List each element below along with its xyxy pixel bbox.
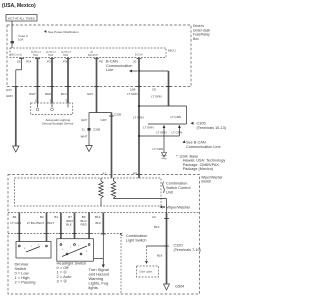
svg-text:(USA, Mexico): (USA, Mexico) xyxy=(2,3,36,9)
svg-text:20: 20 xyxy=(133,60,137,64)
svg-text:Package (Mexico): Package (Mexico) xyxy=(183,167,214,171)
svg-text:BLK: BLK xyxy=(157,254,163,258)
svg-text:B13: B13 xyxy=(95,215,101,219)
svg-text:LT GRN: LT GRN xyxy=(171,115,182,119)
svg-text:(Terminals 7-10): (Terminals 7-10) xyxy=(174,248,202,252)
svg-text:2 = Passing: 2 = Passing xyxy=(15,280,36,285)
svg-text:See B-CAN: See B-CAN xyxy=(186,140,206,144)
svg-text:A3: A3 xyxy=(152,215,156,219)
svg-text:SW1: SW1 xyxy=(33,54,39,57)
svg-text:RED: RED xyxy=(81,223,88,227)
svg-text:Communication Line: Communication Line xyxy=(186,145,221,149)
svg-text:GRY: GRY xyxy=(81,118,87,122)
svg-text:Switch Control: Switch Control xyxy=(166,186,191,190)
svg-text:WHT: WHT xyxy=(47,221,54,225)
svg-text:BLK: BLK xyxy=(96,221,102,225)
svg-text:Line: Line xyxy=(106,68,113,72)
svg-text:B4: B4 xyxy=(13,215,17,219)
svg-text:Combination: Combination xyxy=(166,182,187,186)
svg-text:Switch: Switch xyxy=(201,180,211,184)
svg-text:LT GRN: LT GRN xyxy=(11,221,22,225)
svg-text:C320: C320 xyxy=(174,244,183,248)
svg-text:Light Switch: Light Switch xyxy=(126,238,146,242)
svg-text:10A: 10A xyxy=(18,37,23,41)
svg-text:BLK: BLK xyxy=(66,223,72,227)
svg-text:A1: A1 xyxy=(103,172,107,176)
svg-text:See Power Distribution: See Power Distribution xyxy=(48,30,79,34)
svg-text:LT GRN: LT GRN xyxy=(153,147,164,151)
svg-text:WHT: WHT xyxy=(29,92,36,96)
svg-text:C305: C305 xyxy=(93,128,101,132)
svg-text:10B: 10B xyxy=(130,88,135,92)
svg-text:BLU: BLU xyxy=(61,92,67,96)
svg-text:B1: B1 xyxy=(54,215,58,219)
svg-text:(MIC-cont): (MIC-cont) xyxy=(11,54,22,57)
svg-text:LT BLU/WHT: LT BLU/WHT xyxy=(27,221,45,225)
svg-text:B-CAN: B-CAN xyxy=(135,54,143,57)
svg-text:MICU: MICU xyxy=(168,49,176,53)
svg-text:Wiper/Washer: Wiper/Washer xyxy=(167,206,192,210)
svg-text:WHT: WHT xyxy=(81,135,88,139)
svg-text:HOT AT ALL TIMES: HOT AT ALL TIMES xyxy=(8,17,35,21)
svg-text:GRN: GRN xyxy=(6,94,13,98)
svg-text:BACKUP: BACKUP xyxy=(88,54,98,57)
svg-text:B2: B2 xyxy=(40,215,44,219)
svg-text:LT GRN: LT GRN xyxy=(156,131,167,135)
svg-text:Dash Lights: Dash Lights xyxy=(140,271,153,274)
svg-text:SW2: SW2 xyxy=(48,54,54,57)
svg-text:LT GRN: LT GRN xyxy=(151,95,162,99)
svg-text:(Terminals 10-13): (Terminals 10-13) xyxy=(197,126,227,130)
svg-text:LT GRN: LT GRN xyxy=(172,131,183,135)
svg-text:GRY: GRY xyxy=(87,92,93,96)
svg-text:LT GRN: LT GRN xyxy=(127,92,138,96)
svg-text:Unit: Unit xyxy=(166,191,174,195)
svg-text:A4: A4 xyxy=(133,171,137,175)
svg-text:lights: lights xyxy=(89,285,98,290)
svg-text:(1P): (1P) xyxy=(6,88,12,92)
svg-text:C305: C305 xyxy=(114,113,122,117)
svg-text:C8: C8 xyxy=(152,88,156,92)
svg-text:21: 21 xyxy=(82,128,86,132)
svg-text:Box: Box xyxy=(193,37,199,41)
svg-text:GRY: GRY xyxy=(101,118,107,122)
svg-text:G504: G504 xyxy=(175,285,184,289)
svg-text:SW3: SW3 xyxy=(63,54,69,57)
svg-text:BLK: BLK xyxy=(154,225,160,229)
svg-text:LT GRN: LT GRN xyxy=(143,126,154,130)
svg-text:Sensor/Sunlight Sensor: Sensor/Sunlight Sensor xyxy=(42,121,74,125)
svg-text:P8: P8 xyxy=(99,60,103,64)
svg-text:LT GRN: LT GRN xyxy=(133,116,144,120)
svg-text:3 = ②: 3 = ② xyxy=(57,279,68,284)
svg-text:1B: 1B xyxy=(17,60,21,64)
svg-text:RED: RED xyxy=(45,92,52,96)
svg-text:P14: P14 xyxy=(26,60,32,64)
